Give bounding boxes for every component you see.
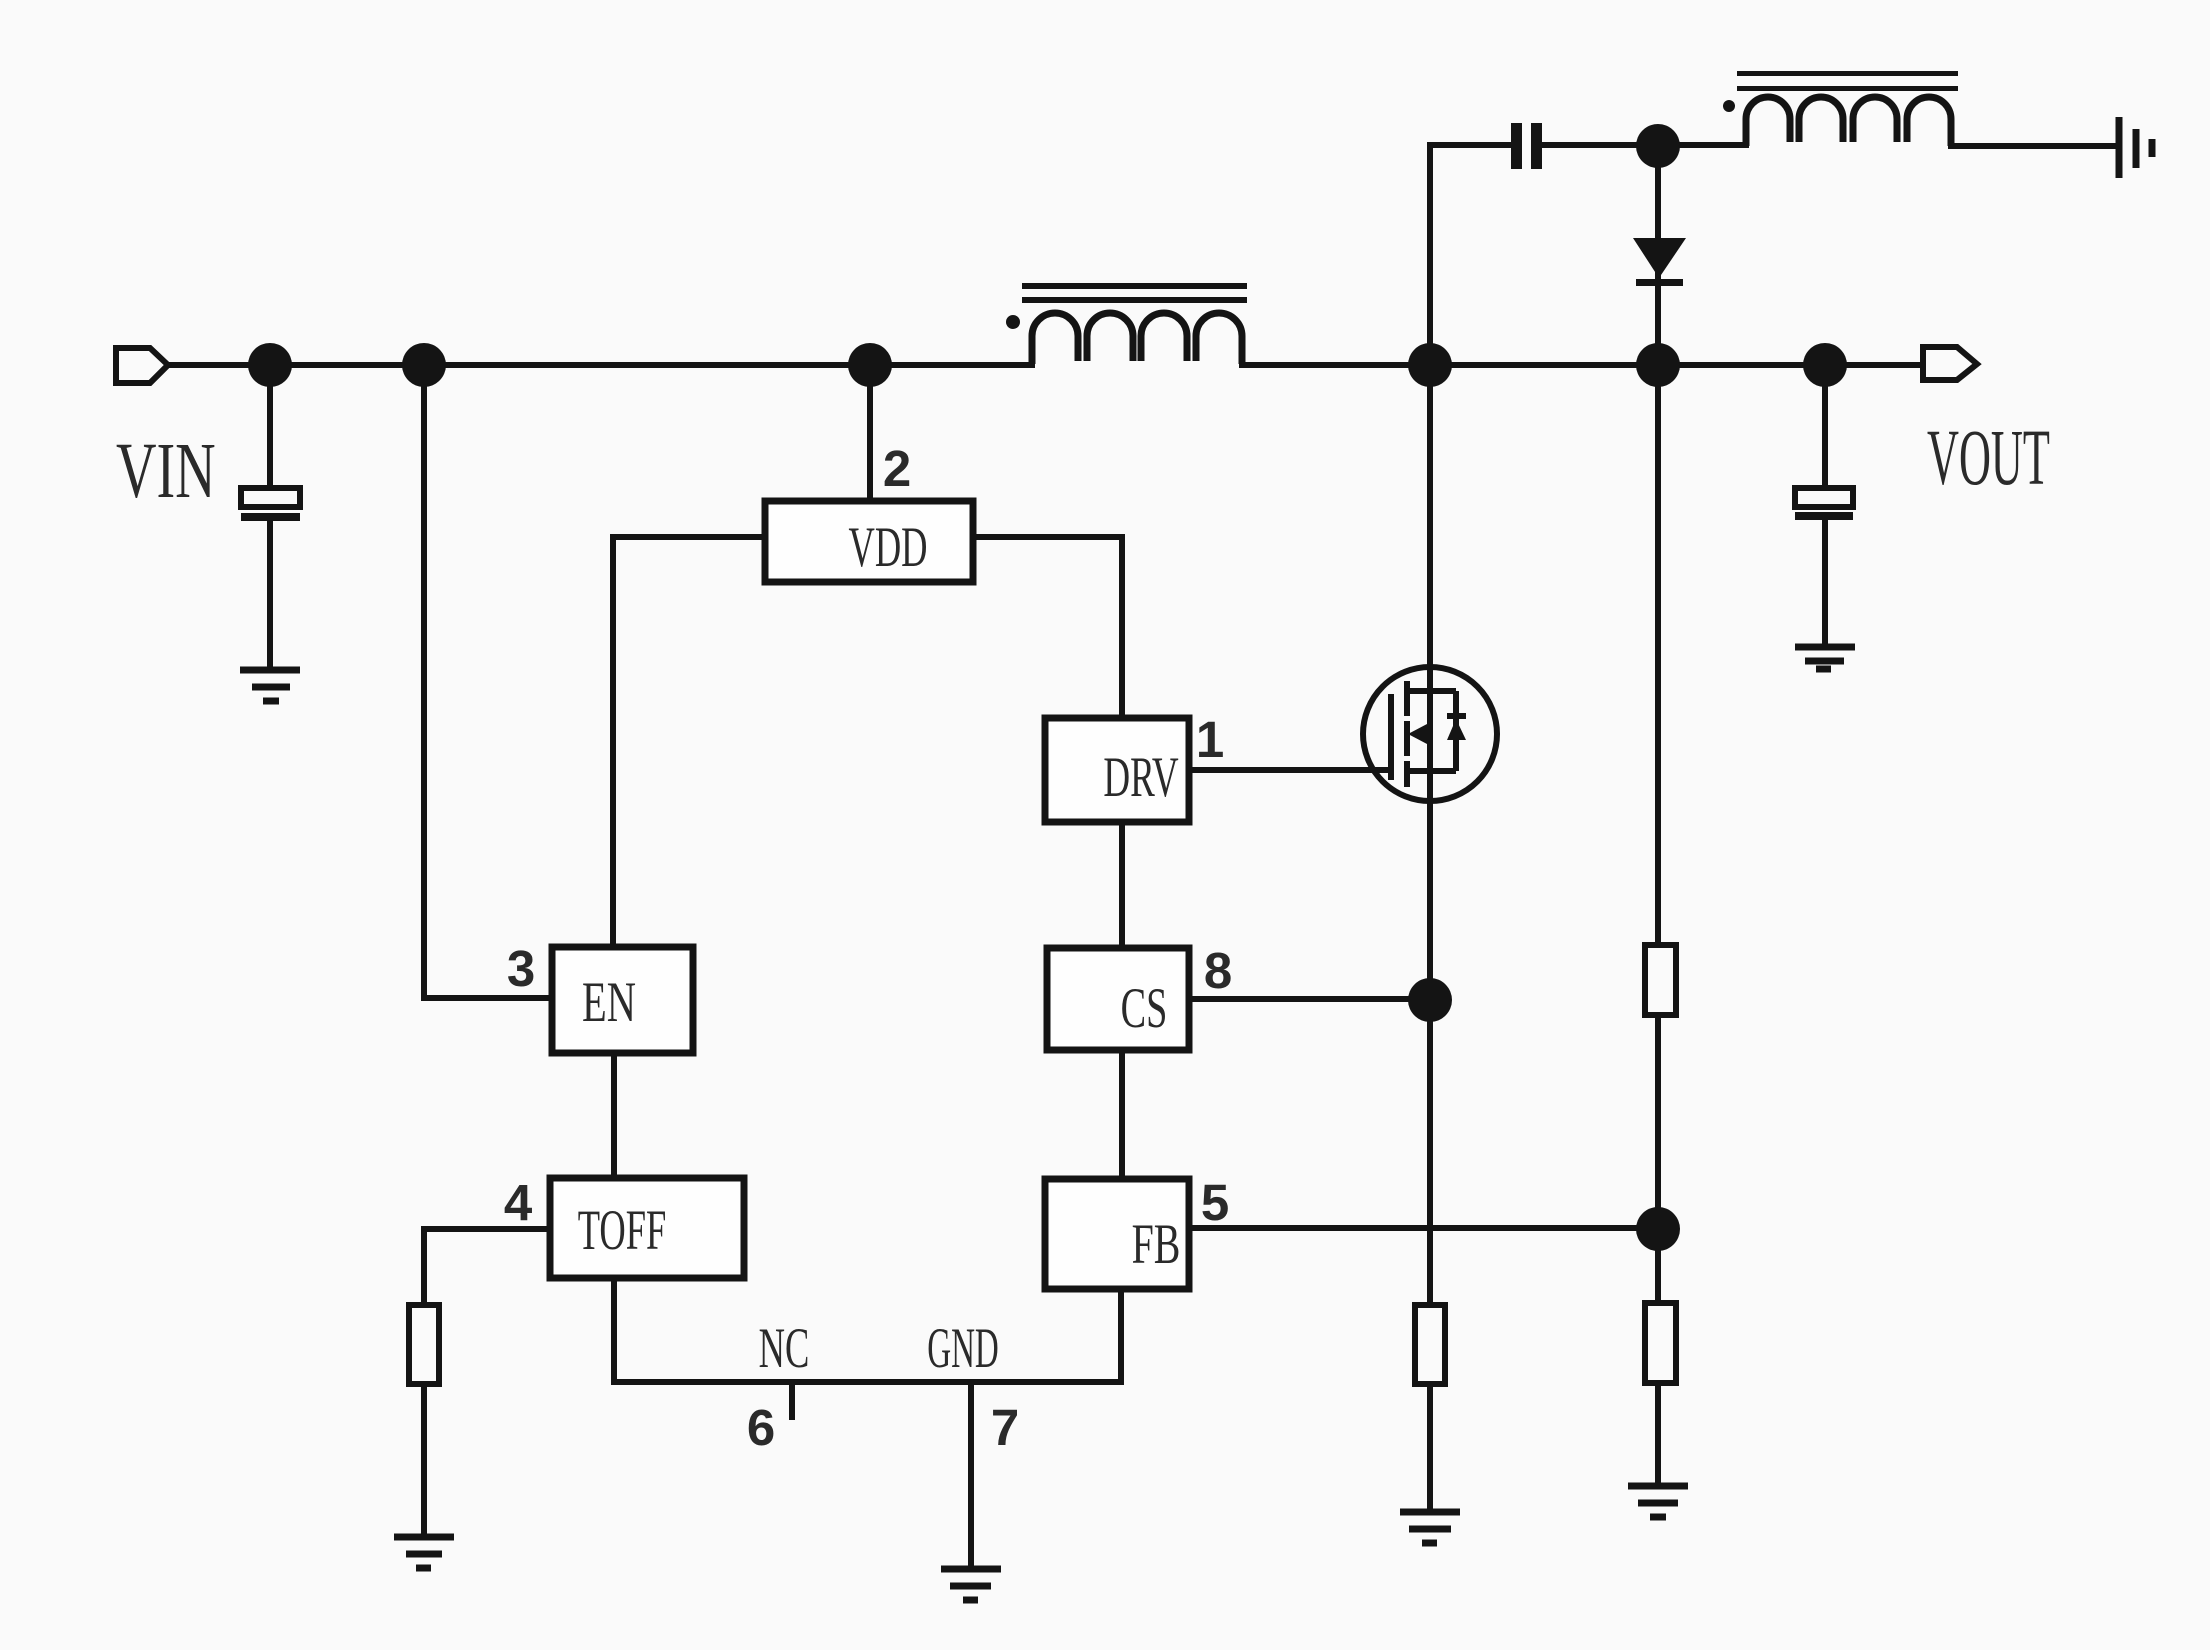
- svg-text:EN: EN: [582, 970, 636, 1033]
- svg-text:1: 1: [1196, 711, 1224, 768]
- svg-text:VOUT: VOUT: [1927, 414, 2050, 502]
- svg-text:3: 3: [507, 940, 535, 997]
- svg-text:TOFF: TOFF: [578, 1199, 667, 1262]
- svg-text:VDD: VDD: [848, 516, 927, 579]
- svg-text:8: 8: [1204, 942, 1232, 999]
- svg-text:DRV: DRV: [1103, 746, 1178, 809]
- svg-text:2: 2: [883, 440, 911, 497]
- svg-text:FB: FB: [1132, 1212, 1181, 1276]
- svg-text:5: 5: [1201, 1174, 1229, 1231]
- svg-text:6: 6: [747, 1399, 775, 1456]
- svg-text:GND: GND: [927, 1317, 999, 1381]
- svg-text:CS: CS: [1121, 978, 1168, 1040]
- svg-text:NC: NC: [759, 1317, 810, 1380]
- svg-text:7: 7: [991, 1399, 1019, 1456]
- svg-text:4: 4: [504, 1174, 533, 1231]
- svg-text:VIN: VIN: [116, 427, 216, 515]
